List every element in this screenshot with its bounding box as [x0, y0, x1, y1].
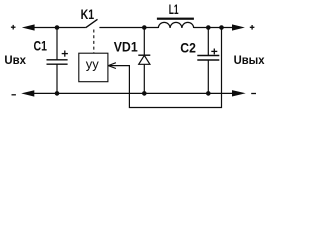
minus sign output [251, 93, 256, 95]
svg-text:L1: L1 [169, 1, 179, 17]
node C1 bottom [55, 91, 60, 96]
node C2 bottom [206, 91, 211, 96]
svg-text:VD1: VD1 [114, 38, 138, 54]
switch K1 blade [86, 19, 98, 27]
diode VD1 triangle [139, 55, 150, 64]
svg-text:C1: C1 [34, 38, 48, 54]
node feedback tap [219, 25, 224, 30]
inductor L1 winding [158, 22, 193, 28]
plus sign C2 [211, 49, 217, 55]
dashed control linkage K1 [93, 30, 95, 54]
node C1 top [55, 25, 60, 30]
inductor L1 core bar [157, 18, 194, 20]
output minus terminal arrow [232, 90, 246, 96]
wire bottom rail [34, 92, 232, 94]
wire top rail middle [99, 27, 158, 29]
diode VD1 cathode bar [138, 54, 150, 56]
capacitor C2 [197, 28, 219, 94]
capacitor C1 [47, 28, 68, 94]
output plus terminal arrow [232, 24, 245, 30]
node C2 top [206, 25, 211, 30]
svg-text:Uвых: Uвых [234, 53, 265, 67]
input plus terminal arrow [22, 24, 35, 30]
plus sign C1 [62, 51, 68, 57]
plus sign input [11, 25, 16, 30]
minus sign input [12, 94, 16, 96]
node VD1 top [142, 25, 147, 30]
svg-text:Uвх: Uвх [4, 53, 26, 67]
control unit box UU [79, 53, 108, 81]
diode VD1 [143, 28, 145, 94]
feedback arrowhead into uu [108, 63, 116, 69]
wire top rail left [34, 27, 86, 29]
node VD1 bottom [142, 91, 147, 96]
feedback wire [108, 28, 221, 108]
svg-text:C2: C2 [180, 39, 196, 55]
plus sign output [250, 25, 255, 30]
svg-text:уу: уу [86, 57, 100, 72]
wire top rail right [194, 27, 233, 29]
svg-text:K1: K1 [81, 6, 95, 22]
input minus terminal arrow [21, 90, 34, 96]
